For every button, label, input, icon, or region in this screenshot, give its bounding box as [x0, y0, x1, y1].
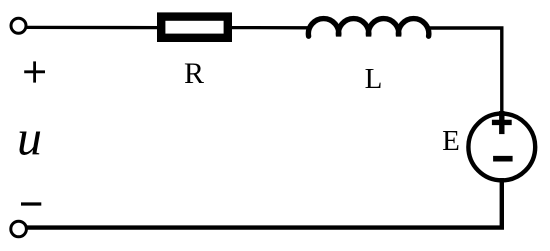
- wire top rail: terminal to resistor: [26, 26, 160, 30]
- minus mark inside source: [493, 156, 512, 162]
- label R: [184, 57, 204, 90]
- svg-text:E: E: [442, 125, 460, 157]
- voltage source E1 (circle): [468, 114, 535, 181]
- wire: inductor to top-right corner and down to source: [427, 28, 502, 116]
- resistor R1 body: [161, 17, 228, 38]
- terminal T1 (top-left open circle): [11, 18, 26, 33]
- plus mark inside source: [492, 111, 512, 134]
- polarity plus label (left): [24, 61, 45, 82]
- svg-text:u: u: [17, 110, 42, 166]
- svg-text:L: L: [365, 63, 383, 95]
- terminal T2 (bottom-left open circle): [11, 221, 27, 237]
- svg-text:R: R: [184, 57, 204, 90]
- polarity minus label (left): [21, 202, 41, 205]
- wire: source bottom down to bottom-right corner and bottom rail to terminal: [27, 178, 502, 228]
- label L: [365, 63, 383, 95]
- label E: [442, 125, 460, 157]
- inductor L1 (four arcs): [308, 19, 428, 37]
- wire: resistor to inductor: [230, 26, 311, 29]
- label u (source voltage): [17, 110, 42, 166]
